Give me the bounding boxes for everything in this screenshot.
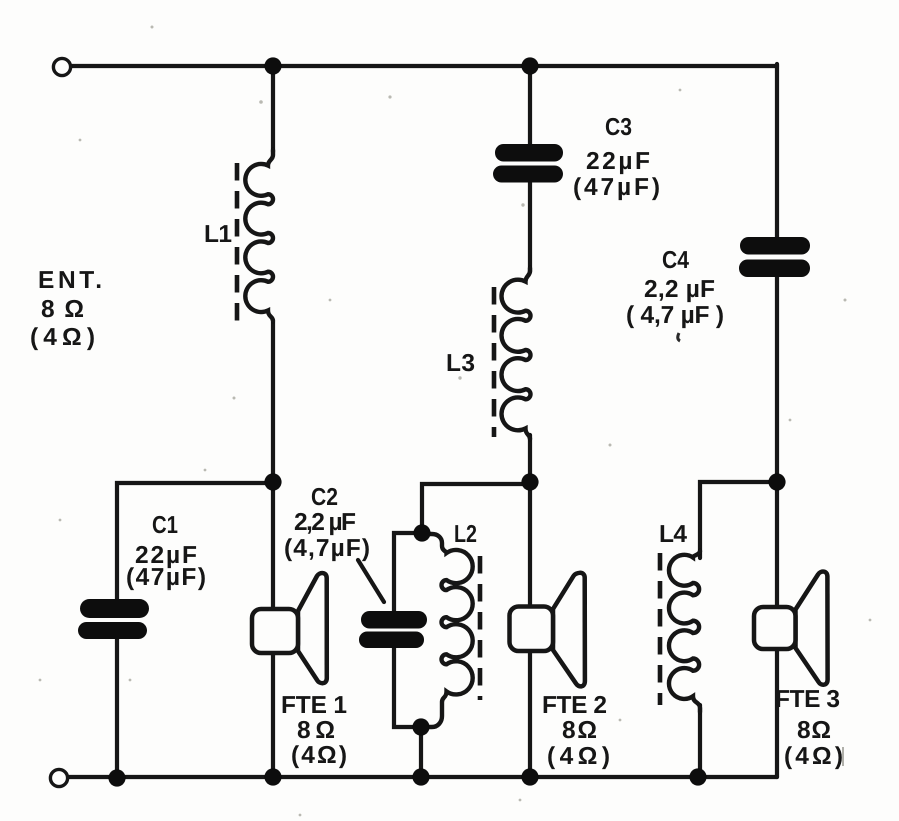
- svg-text:22µF: 22µF: [586, 148, 650, 175]
- svg-text:C3: C3: [605, 114, 632, 141]
- svg-text:8Ω: 8Ω: [797, 717, 831, 744]
- svg-text:C1: C1: [152, 512, 178, 539]
- svg-text:(47µF): (47µF): [126, 564, 206, 591]
- svg-text:C2: C2: [311, 484, 338, 511]
- svg-text:( 4,7 µF ): ( 4,7 µF ): [626, 302, 724, 329]
- svg-text:2,2 µF: 2,2 µF: [294, 509, 356, 536]
- svg-text:8Ω: 8Ω: [297, 717, 335, 744]
- svg-text:L2: L2: [454, 521, 477, 548]
- svg-text:8Ω: 8Ω: [562, 717, 597, 744]
- svg-text:L4: L4: [659, 521, 687, 548]
- svg-text:FTE 1: FTE 1: [281, 692, 347, 719]
- svg-text:FTE 3: FTE 3: [775, 686, 840, 713]
- svg-text:(47µF): (47µF): [573, 174, 660, 201]
- svg-text:FTE 2: FTE 2: [542, 692, 607, 719]
- svg-text:L3: L3: [446, 350, 475, 377]
- svg-text:L1: L1: [204, 221, 232, 248]
- svg-text:C4: C4: [662, 247, 689, 274]
- svg-text:2,2 µF: 2,2 µF: [644, 276, 715, 303]
- svg-text:(4,7µF): (4,7µF): [284, 535, 370, 562]
